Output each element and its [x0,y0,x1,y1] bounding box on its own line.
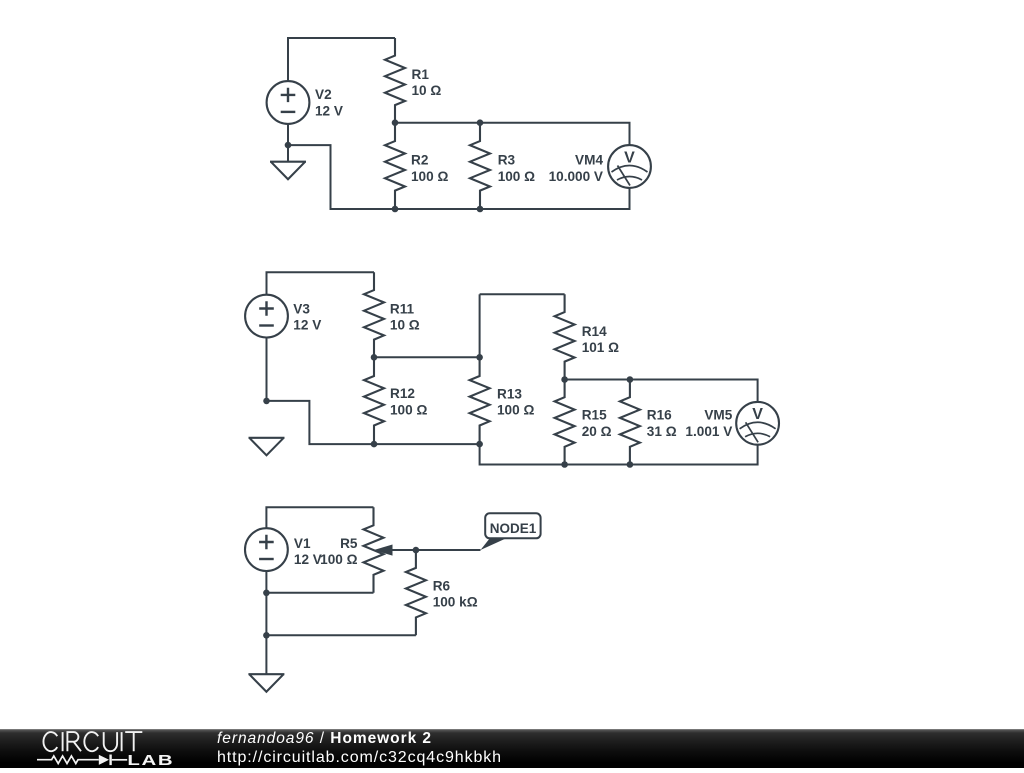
svg-text:V1: V1 [294,536,311,551]
svg-text:100 Ω: 100 Ω [390,402,427,417]
svg-text:R1: R1 [412,67,430,82]
svg-text:R15: R15 [582,408,607,423]
svg-text:12 V: 12 V [315,103,343,118]
svg-text:100 kΩ: 100 kΩ [433,595,478,610]
svg-text:V2: V2 [315,87,332,102]
svg-text:R13: R13 [497,386,522,401]
svg-text:12 V: 12 V [293,318,321,333]
svg-text:100 Ω: 100 Ω [320,552,357,567]
svg-text:R2: R2 [411,153,429,168]
svg-text:V: V [624,149,635,166]
svg-text:R5: R5 [340,536,358,551]
svg-text:101 Ω: 101 Ω [582,340,619,355]
svg-text:10 Ω: 10 Ω [390,318,420,333]
svg-text:20 Ω: 20 Ω [582,424,612,439]
svg-text:R6: R6 [433,579,451,594]
svg-text:R11: R11 [390,301,415,316]
svg-text:12 V: 12 V [294,552,322,567]
svg-text:R16: R16 [647,408,672,423]
svg-text:10 Ω: 10 Ω [412,83,442,98]
svg-text:R14: R14 [582,324,607,339]
svg-text:VM4: VM4 [575,153,603,168]
svg-text:31 Ω: 31 Ω [647,424,677,439]
svg-text:100 Ω: 100 Ω [497,403,534,418]
svg-text:NODE1: NODE1 [490,521,537,536]
svg-text:LAB: LAB [127,751,174,768]
svg-text:1.001 V: 1.001 V [685,424,732,439]
svg-text:V3: V3 [293,301,310,316]
svg-text:100 Ω: 100 Ω [498,169,535,184]
svg-text:10.000 V: 10.000 V [549,169,603,184]
svg-text:R12: R12 [390,386,415,401]
svg-text:R3: R3 [498,153,516,168]
svg-text:V: V [752,406,763,423]
svg-text:100 Ω: 100 Ω [411,169,448,184]
svg-text:VM5: VM5 [704,408,732,423]
